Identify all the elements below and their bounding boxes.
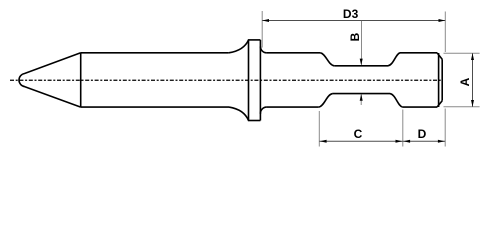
A top arrow bbox=[471, 53, 474, 60]
C/D shared extension line bbox=[402, 110, 404, 147]
centerline bbox=[10, 79, 443, 81]
svg-text:C: C bbox=[354, 127, 363, 141]
D3 right arrow bbox=[439, 19, 446, 22]
collar left fillet top bbox=[229, 40, 249, 53]
collar right fillet bottom bbox=[260, 107, 266, 114]
D3 extension line left bbox=[261, 11, 263, 48]
A extension line top bbox=[444, 52, 480, 54]
dimension C line bbox=[319, 140, 403, 142]
D3 extension line right bbox=[444, 12, 446, 53]
body top edge bbox=[81, 52, 229, 54]
end chamfer top bbox=[437, 53, 442, 59]
C left arrow bbox=[320, 140, 327, 143]
collar right fillet top bbox=[260, 47, 266, 53]
groove bottom-left curve bbox=[319, 94, 333, 108]
C right arrow bbox=[396, 140, 403, 143]
svg-text:D: D bbox=[418, 127, 427, 141]
collar top edge bbox=[248, 39, 261, 41]
B arrow down bbox=[360, 59, 363, 66]
dimension D line bbox=[403, 140, 445, 142]
shank top edge left of groove bbox=[267, 52, 321, 54]
collar left fillet bottom bbox=[229, 107, 249, 120]
cone base edge bbox=[80, 53, 82, 107]
groove bottom floor bbox=[333, 93, 390, 95]
B counter arrow tail bbox=[360, 94, 362, 105]
C extension line left bbox=[318, 111, 320, 147]
body bottom edge bbox=[81, 106, 229, 108]
dimension D3 line bbox=[262, 20, 445, 22]
groove top-right curve bbox=[388, 53, 400, 66]
B counter arrow up bbox=[360, 94, 363, 101]
collar left face bbox=[248, 40, 250, 121]
svg-text:A: A bbox=[458, 77, 472, 86]
collar bottom edge bbox=[248, 120, 261, 122]
collar right face bbox=[259, 40, 261, 121]
A bottom arrow bbox=[471, 100, 474, 107]
D3 left arrow bbox=[262, 19, 269, 22]
end face bbox=[441, 59, 443, 100]
shank top edge right of groove bbox=[400, 52, 437, 54]
tool bit outline: conical tip bbox=[19, 53, 81, 107]
D right arrow bbox=[438, 140, 445, 143]
svg-text:B: B bbox=[348, 32, 362, 41]
D left arrow bbox=[403, 140, 410, 143]
dimension A line bbox=[472, 53, 474, 107]
B leader line bbox=[361, 21, 363, 65]
groove top-left curve bbox=[320, 53, 334, 66]
shank bottom edge left of groove bbox=[267, 106, 319, 108]
D extension line right bbox=[444, 109, 446, 147]
groove top floor bbox=[334, 65, 388, 67]
shank bottom edge right of groove bbox=[403, 106, 437, 108]
end chamfer bottom bbox=[437, 101, 442, 107]
groove bottom-right curve bbox=[390, 94, 403, 108]
A extension line bottom bbox=[444, 106, 480, 108]
svg-text:D3: D3 bbox=[343, 7, 359, 21]
chamfer circle edge bbox=[438, 53, 440, 107]
